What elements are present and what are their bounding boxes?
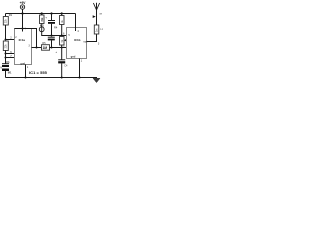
svg-text:R5: R5 bbox=[42, 41, 46, 45]
op-amp IC1b box bbox=[67, 28, 88, 59]
wire IC1a top feed over box to node B riser bbox=[15, 29, 37, 48]
resistor R3 bbox=[40, 12, 45, 23]
resistor R4 bbox=[54, 12, 64, 36]
svg-text:IC1a: IC1a bbox=[19, 38, 26, 42]
svg-text:M: M bbox=[0, 67, 2, 69]
wire IC1b ground pin to rail bbox=[79, 59, 83, 79]
svg-text:1m: 1m bbox=[96, 29, 99, 32]
wire IC1a top pin to +9V rail bbox=[22, 14, 27, 32]
inductor L1 bbox=[94, 25, 103, 34]
svg-text:R1: R1 bbox=[9, 13, 13, 17]
wire top supply rail bbox=[6, 13, 76, 15]
op-amp IC1a box bbox=[15, 29, 32, 66]
microphone M1 element bbox=[0, 67, 12, 77]
wire IC1a output row bbox=[32, 47, 42, 49]
svg-text:IC1 = 555: IC1 = 555 bbox=[29, 70, 48, 75]
wire IC1a pin 6 tap bbox=[5, 50, 15, 55]
svg-text:M1: M1 bbox=[8, 70, 12, 74]
wire IC1b top pin to rail bbox=[76, 14, 80, 34]
wire IC1b output to antenna riser bbox=[87, 34, 100, 46]
resistor R1 bbox=[3, 13, 12, 40]
wire IC1a pin 1 to ground rail bbox=[25, 65, 29, 79]
resistor R5 bbox=[42, 41, 67, 50]
svg-text:+: + bbox=[45, 16, 47, 20]
microphone M1 capsule bbox=[39, 24, 66, 36]
capacitor C3 bbox=[48, 37, 55, 47]
antenna bbox=[93, 3, 103, 25]
wiper arrow of P1 bbox=[64, 39, 67, 42]
svg-text:39k: 39k bbox=[41, 17, 44, 22]
svg-text:gnd: gnd bbox=[71, 55, 76, 59]
ground bbox=[93, 78, 100, 82]
capacitor C2 electrolytic bbox=[45, 12, 55, 36]
node +9V terminal bbox=[20, 1, 27, 15]
resistor R2 bbox=[3, 41, 8, 64]
wire bottom ground rail bbox=[6, 77, 98, 79]
svg-text:gnd: gnd bbox=[20, 61, 25, 65]
capacitor C1 bbox=[2, 60, 10, 67]
svg-text:IC1b: IC1b bbox=[74, 38, 81, 42]
svg-text:1M: 1M bbox=[43, 46, 48, 50]
wire IC1a pin 2 bbox=[6, 39, 15, 41]
wire IC1a pin 7 tap bbox=[5, 54, 15, 59]
potentiometer P1 bbox=[60, 37, 67, 48]
capacitor C4 electrolytic bbox=[55, 48, 68, 79]
node A junction R1/R2 bbox=[5, 36, 15, 41]
svg-text:+: + bbox=[55, 50, 57, 54]
svg-text:R4: R4 bbox=[54, 26, 58, 30]
